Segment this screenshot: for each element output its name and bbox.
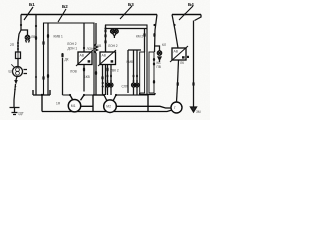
svg-text:АВ: АВ	[102, 54, 107, 58]
svg-text:КМВ: КМВ	[127, 60, 134, 64]
svg-text:М2: М2	[106, 105, 111, 109]
svg-text:ПВ: ПВ	[157, 65, 161, 69]
svg-text:АВ: АВ	[174, 50, 179, 54]
svg-text:ЗМ: ЗМ	[196, 110, 201, 114]
svg-text:2КВ: 2КВ	[96, 44, 102, 48]
svg-text:ЛОН 2: ЛОН 2	[108, 44, 118, 48]
svg-text:ЛОН: ЛОН	[87, 47, 95, 51]
svg-text:ЛК: ЛК	[180, 61, 184, 65]
svg-text:КЛ: КЛ	[162, 43, 166, 47]
svg-text:М1: М1	[71, 104, 76, 108]
svg-text:ЛОН 2: ЛОН 2	[67, 42, 77, 46]
svg-text:Б4: Б4	[188, 2, 194, 7]
svg-text:ДОН 1: ДОН 1	[68, 47, 78, 51]
svg-text:Б2: Б2	[62, 4, 68, 9]
svg-text:ЛОВ: ЛОВ	[70, 70, 77, 74]
svg-text:УВК 2: УВК 2	[110, 69, 119, 73]
svg-text:1Я: 1Я	[56, 102, 61, 106]
svg-text:Г: Г	[174, 106, 176, 110]
svg-text:ЛВ: ЛВ	[31, 35, 35, 39]
svg-text:СЛЛ: СЛЛ	[122, 85, 128, 89]
svg-text:АВ: АВ	[80, 54, 85, 58]
svg-text:Ш1: Ш1	[9, 70, 14, 74]
svg-text:1КВ: 1КВ	[84, 75, 90, 79]
svg-text:2П: 2П	[10, 43, 15, 47]
svg-text:2ДТ: 2ДТ	[18, 112, 24, 116]
svg-text:КМ 2: КМ 2	[136, 35, 143, 39]
svg-text:Б1: Б1	[29, 2, 35, 7]
svg-text:ДК: ДК	[65, 58, 69, 62]
svg-text:КМВ 1: КМВ 1	[54, 35, 64, 39]
svg-text:Б3: Б3	[128, 2, 134, 7]
